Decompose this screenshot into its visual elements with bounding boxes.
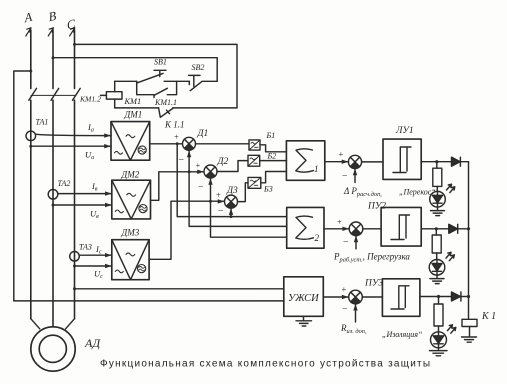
LED HL2 [429,260,445,276]
summator D2 [204,165,217,178]
ground UZhSI [296,316,312,326]
reference arrow 3 [355,304,357,322]
LED HL2 arrows [446,252,454,260]
svg-text:В: В [48,8,58,24]
svg-text:–: – [343,236,349,246]
resistor R2 [435,229,437,235]
wire B1 to S1 [260,145,286,152]
svg-text:К 1.1: К 1.1 [164,120,184,130]
arrow phase A [26,28,31,36]
wire left bus to UZhSI [14,300,284,302]
wire D2 to B2 [217,161,248,172]
coil KM1 [106,92,122,99]
CT TA2 [48,190,58,200]
junction R1 [435,160,438,163]
junction C tap low [73,287,76,290]
svg-text:2: 2 [315,233,320,243]
wire B to control loop [53,58,217,82]
relay K1 [462,319,477,326]
arrow phase B [48,28,53,36]
wire Ua [31,145,111,147]
wire Ub [53,204,112,206]
junction V4 on H1 [230,215,233,218]
junction B tap [52,56,55,59]
wire D3 minus from H1 (V4) [230,208,232,216]
svg-text:ДМ3: ДМ3 [121,228,140,238]
svg-text:+: + [174,132,179,142]
summator D1 [183,137,196,150]
svg-text:Б2: Б2 [267,152,277,161]
diode VD2 [449,224,458,233]
svg-text:ТА2: ТА2 [58,179,71,188]
svg-text:Д3: Д3 [226,186,238,196]
svg-text:Рраб.уст., Перегрузка: Рраб.уст., Перегрузка [333,252,410,264]
svg-text:Д2: Д2 [217,157,229,167]
svg-text:–: – [218,205,224,215]
button SB2 [189,81,217,90]
wire UZhSI to sum3 [323,296,348,298]
output bus [468,162,470,320]
wire A to left bus [14,71,31,301]
wire DM2 up to D2 [151,172,204,201]
LED HL1 [430,191,446,207]
svg-text:Uс: Uс [94,269,103,281]
wire S1 to sum1 [325,161,349,163]
CT TA1 [26,131,36,141]
motor AD [31,327,75,371]
svg-text:–: – [178,154,184,164]
contact K1.1 [159,108,173,117]
junction V3 on DM3 wire [209,200,212,203]
wire phase B vertical [52,30,54,327]
resistor R3 [438,297,440,305]
button SB1 [115,73,190,84]
svg-text:Функциональная схема комплексн: Функциональная схема комплексного устрой… [100,359,431,370]
svg-text:К 1: К 1 [481,311,496,322]
junction bus 2 [467,227,470,230]
wire tap DM1 down (V1) [177,144,286,217]
wire phase C vertical [74,30,76,319]
summer S1 [286,141,324,181]
ground HL1 [431,207,445,216]
CT TA3 [70,251,80,261]
junction C tap [73,43,76,46]
svg-text:–: – [342,170,348,180]
svg-text:Δ Ррасч.доп,: Δ Ррасч.доп, [343,186,382,198]
junction R3 [437,295,440,298]
junction Uc tap [73,265,76,268]
wire Ic [79,254,112,256]
svg-text:УЖСИ: УЖСИ [288,293,320,304]
converter B1 [249,140,260,150]
wire control bottom [115,107,237,109]
junction bus 3 [467,295,470,298]
junction V1 top [176,142,179,145]
wire LU1 out [421,161,468,163]
svg-text:А: А [23,10,34,26]
junction A tap [29,70,32,73]
diode VD1 [452,157,461,166]
summing point 1 [348,155,361,168]
wire Ia [36,134,111,135]
svg-text:ПУ2: ПУ2 [367,202,386,212]
svg-text:КМ1.2: КМ1.2 [79,95,101,104]
svg-text:+: + [216,190,221,200]
arrow phase C [70,28,75,36]
motor AD leads [31,319,75,329]
wire Ib [58,193,112,195]
contactor KM1.2 main contacts [29,88,80,100]
svg-text:Uа: Uа [85,150,94,162]
LED HL1 arrows [447,184,455,192]
svg-text:КМ1: КМ1 [124,97,142,106]
svg-text:ТА3: ТА3 [79,243,92,252]
ground K1 [462,337,477,342]
wire D1 to B1 [196,143,250,145]
svg-text:Б3: Б3 [263,185,273,194]
svg-text:КМ1.1: КМ1.1 [154,98,177,107]
wire D1 minus from DM2 (V2) [189,150,286,226]
svg-text:+: + [337,217,342,227]
svg-text:Rиз. доп,: Rиз. доп, [340,323,367,335]
svg-text:1: 1 [314,164,319,174]
junction Ub tap [52,204,55,207]
block DM2 [112,180,151,219]
svg-text:Uв: Uв [90,209,99,221]
wire B3 to S1 [261,172,287,183]
wire D3 to B3 [238,183,249,202]
wire PU3 out [420,296,469,298]
svg-text:„Перекос“: „Перекос“ [399,188,436,197]
block PU2 [381,207,421,246]
wire sum2 to PU2 [363,228,381,230]
svg-text:Iв: Iв [91,181,98,193]
junction V2 on DM2 wire [188,170,191,173]
block PU3 [382,279,420,317]
svg-text:+: + [196,160,201,170]
svg-text:Б1: Б1 [266,131,276,140]
converter B2 [248,155,260,166]
wire sum1 to LU1 [362,161,383,163]
svg-text:ДМ2: ДМ2 [121,170,140,180]
diode VD3 [452,292,461,301]
wire B2 to S1 [260,160,287,162]
wire sum3 to PU3 [362,296,382,298]
svg-text:–: – [342,303,348,313]
svg-text:–: – [198,181,204,191]
svg-text:ПУ3: ПУ3 [364,279,383,289]
contact KM1.1 [137,81,177,97]
wire C tap to UZhSI [75,288,284,290]
svg-text:ЛУ1: ЛУ1 [395,126,414,136]
svg-text:SB1: SB1 [154,58,167,67]
wire control top (phase C to frame) [75,44,238,108]
ground HL3 [430,348,448,356]
summer S2 [287,207,324,248]
summator D3 [225,195,238,208]
wire S2 to sum2 [324,228,349,230]
ground HL2 [430,275,444,284]
LED HL3 [431,332,447,348]
block DM3 [112,240,149,280]
LED HL3 arrows [448,325,456,333]
block LU1 [383,139,421,179]
wire D2 minus from DM3 (V3) [211,178,287,237]
reference arrow 2 [355,236,357,249]
wire phase A vertical [30,30,32,319]
wire PU2 out [421,228,468,230]
reference arrow 1 [354,169,356,183]
wire DM1 to D1 [150,143,183,145]
resistor R1 [436,162,438,169]
svg-text:ДМ1: ДМ1 [124,110,143,120]
summing point 3 [349,290,363,304]
KM1.2 linkage [31,94,76,96]
svg-text:АД: АД [84,336,102,350]
wire Uc [75,265,112,267]
svg-text:SB2: SB2 [192,63,205,72]
svg-text:+: + [342,284,347,294]
block UZhSI [284,277,324,317]
svg-text:ТА1: ТА1 [36,118,49,127]
svg-text:+: + [339,149,344,159]
wire DM3 up to D3 [149,201,223,259]
junction Ua tap [29,145,32,148]
summing point 2 [349,222,363,236]
junction R2 [435,227,438,230]
converter B3 [248,177,261,188]
svg-text:Iа: Iа [87,122,94,134]
block DM1 [111,122,150,161]
svg-text:„Изоляция“: „Изоляция“ [382,330,423,339]
svg-text:Iс: Iс [95,244,102,256]
svg-text:Д1: Д1 [197,129,209,139]
